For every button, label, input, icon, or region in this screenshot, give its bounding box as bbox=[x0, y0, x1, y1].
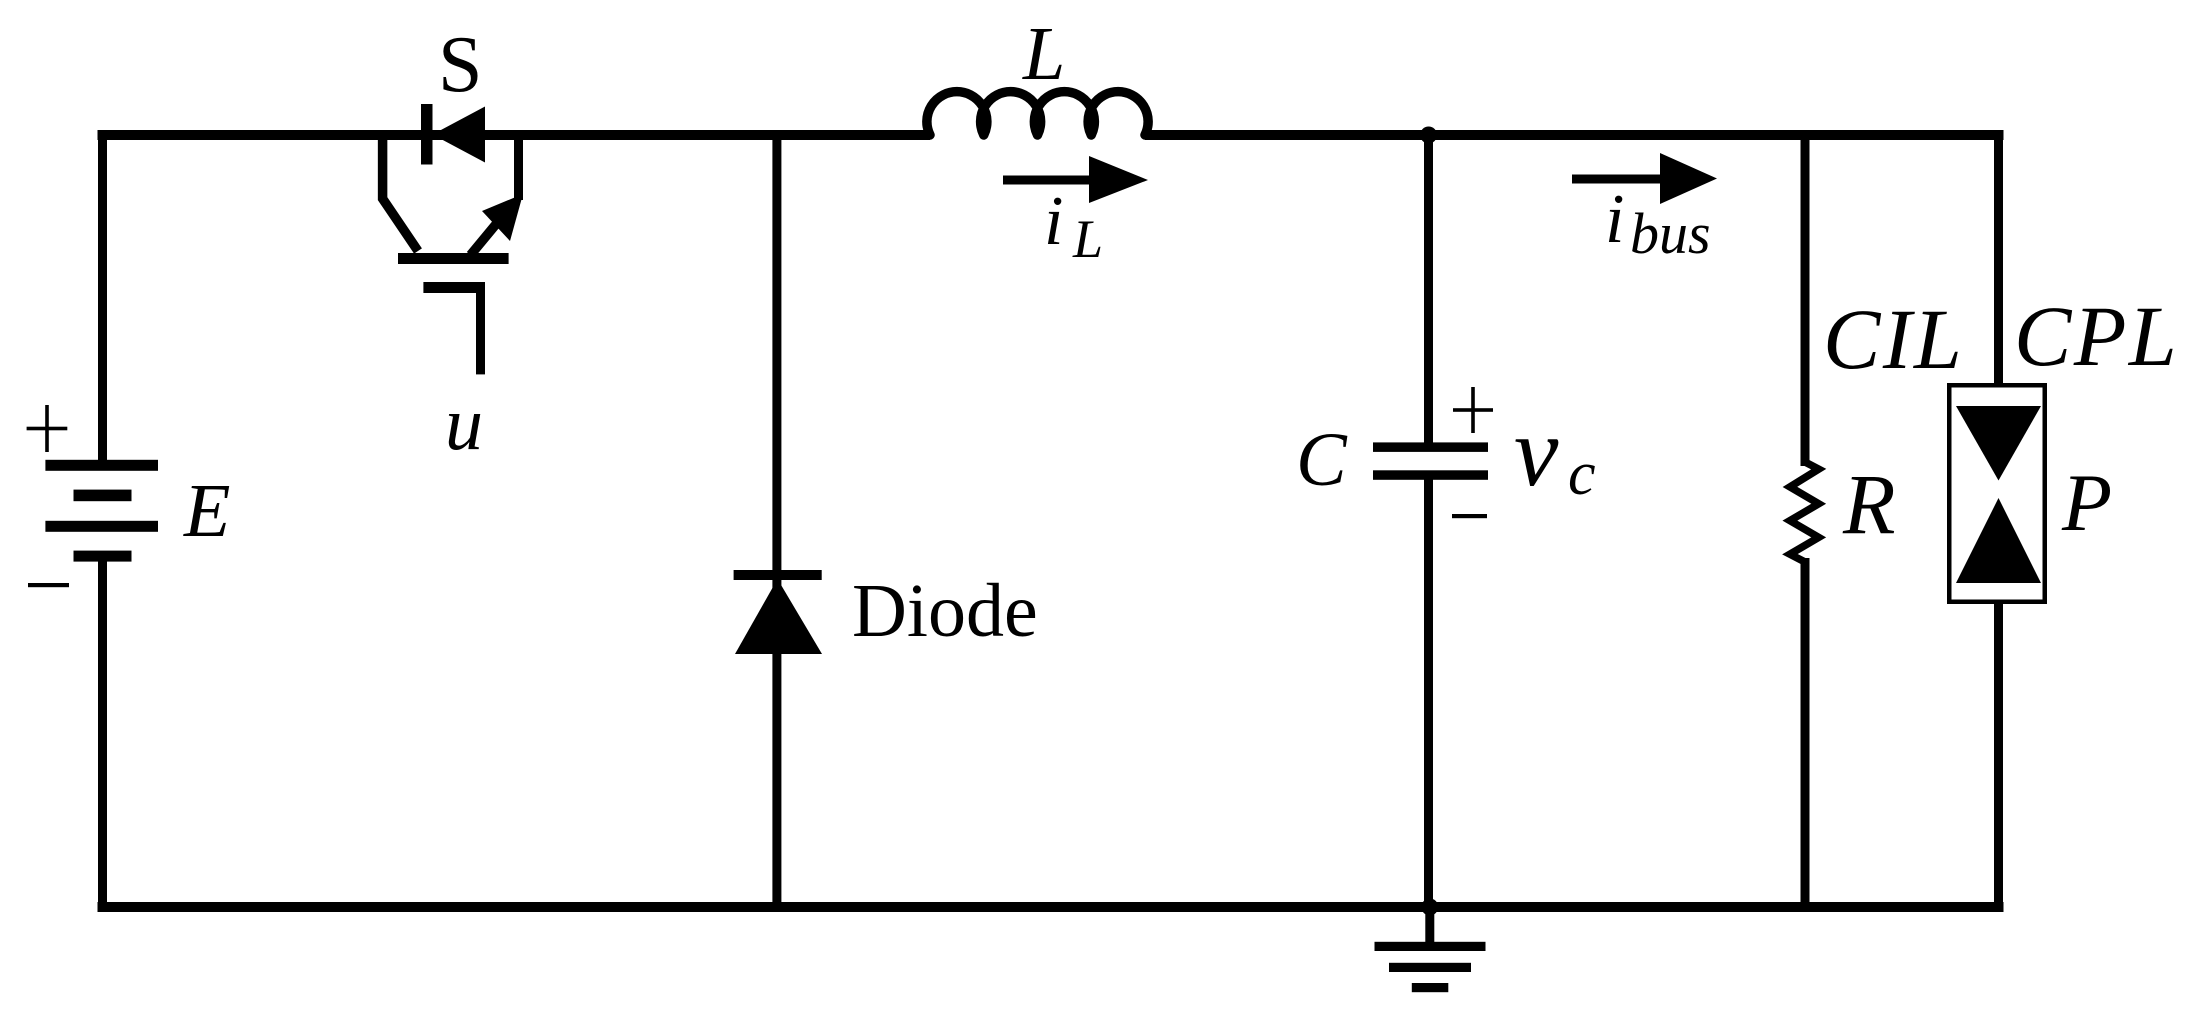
battery E plate3 long bbox=[45, 521, 158, 532]
svg-text:i: i bbox=[1605, 181, 1624, 258]
resistor branch upper wire bbox=[1801, 130, 1810, 466]
node bottom junction dot bbox=[1421, 899, 1438, 916]
capacitor branch upper wire bbox=[1424, 130, 1433, 448]
label vc bbox=[1514, 396, 1596, 508]
diode branch wire bbox=[772, 130, 781, 912]
battery E plate4 short bbox=[74, 551, 132, 562]
switch S bar bbox=[421, 104, 433, 165]
label iL bbox=[1044, 183, 1103, 269]
ground stub bbox=[1425, 907, 1434, 942]
CPL rectangle bbox=[1949, 385, 2045, 602]
node bus top junction dot bbox=[1420, 127, 1437, 144]
svg-text:c: c bbox=[1568, 440, 1596, 508]
svg-text:bus: bus bbox=[1630, 201, 1711, 266]
svg-text:CPL: CPL bbox=[2014, 288, 2179, 384]
battery plus sign bbox=[27, 405, 68, 452]
diode triangle bbox=[735, 579, 822, 654]
battery E plate2 short bbox=[74, 490, 132, 502]
diode cathode bar bbox=[734, 570, 822, 580]
svg-text:E: E bbox=[183, 469, 230, 553]
ground bar1 bbox=[1375, 942, 1486, 951]
capacitor branch lower wire bbox=[1424, 474, 1433, 912]
svg-text:S: S bbox=[438, 21, 483, 109]
switch S diode triangle bbox=[433, 107, 486, 163]
wire left branch lower bbox=[98, 555, 107, 912]
resistor R zigzag bbox=[1790, 462, 1819, 562]
svg-text:v: v bbox=[1514, 396, 1559, 507]
svg-text:L: L bbox=[1072, 209, 1103, 269]
switch S emitter arrow head bbox=[482, 194, 523, 241]
wire left branch upper bbox=[98, 130, 107, 465]
svg-text:C: C bbox=[1296, 418, 1348, 502]
arrow iL shaft bbox=[1003, 176, 1098, 185]
arrow ibus head bbox=[1660, 153, 1717, 204]
CPL branch lower wire bbox=[1994, 602, 2003, 912]
battery minus sign bbox=[28, 583, 69, 587]
capacitor plus sign bbox=[1453, 387, 1493, 433]
ground bar3 bbox=[1412, 983, 1449, 992]
svg-text:u: u bbox=[445, 382, 483, 466]
inductor L bbox=[927, 92, 1148, 135]
wire top bus right segment bbox=[1145, 130, 2004, 140]
arrow iL head bbox=[1089, 156, 1148, 203]
resistor branch lower wire bbox=[1801, 558, 1810, 912]
wire top bus left segment bbox=[98, 130, 931, 140]
switch S right lead bbox=[514, 130, 523, 200]
svg-text:R: R bbox=[1842, 456, 1896, 552]
svg-text:L: L bbox=[1022, 12, 1065, 96]
capacitor plate top bbox=[1373, 442, 1488, 452]
svg-text:Diode: Diode bbox=[852, 569, 1038, 653]
switch S left lead bbox=[383, 130, 418, 251]
CPL triangle top bbox=[1956, 406, 2041, 481]
capacitor minus sign bbox=[1452, 514, 1487, 518]
switch S emitter arrow shaft bbox=[471, 223, 498, 255]
switch S gate lead bbox=[476, 283, 485, 374]
CPL branch upper wire bbox=[1994, 130, 2003, 385]
svg-text:CIL: CIL bbox=[1823, 291, 1964, 387]
switch S gate bar bbox=[423, 282, 485, 293]
arrow ibus shaft bbox=[1572, 175, 1672, 184]
wire bottom bus bbox=[98, 902, 2004, 912]
CPL triangle bottom bbox=[1956, 498, 2041, 583]
svg-text:P: P bbox=[2061, 457, 2112, 548]
capacitor plate bottom bbox=[1373, 470, 1488, 480]
svg-text:i: i bbox=[1044, 183, 1063, 260]
ground bar2 bbox=[1389, 963, 1471, 972]
switch S bottom bar bbox=[398, 253, 509, 264]
battery E plate1 long bbox=[45, 460, 158, 471]
label ibus bbox=[1605, 181, 1711, 266]
